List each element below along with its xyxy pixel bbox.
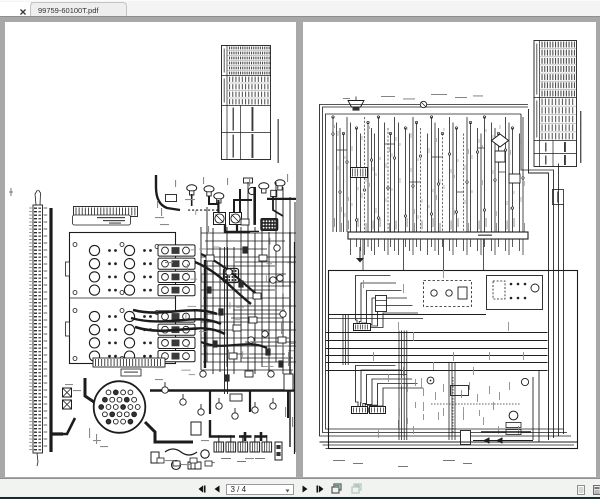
status strip highlight — [0, 496, 600, 498]
cluster tie wires — [191, 187, 296, 232]
parts list table — [221, 45, 270, 159]
relay unit box B — [486, 275, 542, 309]
terminal strip TB1 — [29, 190, 47, 466]
first page button — [198, 485, 206, 493]
page number field — [226, 484, 294, 495]
previous view button — [331, 483, 342, 494]
facing page view icon — [593, 485, 600, 495]
wire labels — [65, 199, 295, 465]
lower section labels — [363, 270, 524, 438]
main vertical bus — [203, 260, 205, 368]
nested routing upper — [353, 275, 418, 330]
round connector J1 — [93, 381, 145, 433]
relay bank — [214, 435, 272, 452]
previous page button — [214, 485, 220, 493]
single page view icon — [577, 485, 585, 495]
connector strip CN1 — [73, 206, 137, 216]
fuse holder — [275, 442, 282, 460]
bottom detail cluster — [399, 377, 531, 434]
lower vertical bundles — [343, 314, 455, 440]
Pub. No. 99759-60100 label — [277, 119, 278, 163]
relay unit dashed box A — [423, 280, 471, 306]
left page (sheet 3) — [5, 22, 297, 478]
auxiliary valves — [151, 382, 276, 470]
last page button — [316, 485, 324, 493]
document tab — [30, 2, 127, 18]
right edge wires — [521, 109, 564, 440]
horn H1 — [348, 96, 364, 110]
relay K1 — [375, 295, 386, 311]
nested routing lower — [351, 365, 423, 413]
next page button — [302, 485, 308, 493]
mesh labels — [181, 210, 299, 383]
valve block body — [65, 232, 175, 363]
wire terminal circles — [331, 132, 523, 220]
next view button (disabled) — [351, 483, 362, 494]
right page (sheet 4) — [303, 22, 596, 478]
ground bus wire — [51, 208, 63, 452]
harness wire labels — [334, 125, 525, 219]
connector bar SD-5561 — [348, 232, 528, 239]
wiring mesh — [201, 182, 296, 452]
cluster labels — [157, 174, 288, 232]
connector box CN3 — [350, 167, 367, 177]
bottom widgets — [157, 458, 265, 466]
mesh components — [199, 219, 285, 382]
outer loop wires — [319, 104, 571, 436]
tab bar — [0, 0, 600, 17]
lower section frame — [328, 270, 577, 448]
vertical harness wires — [331, 115, 522, 231]
crossed valve pair — [62, 388, 71, 409]
relay feed wires — [210, 420, 267, 441]
main valve label — [72, 215, 130, 225]
pump motor unit — [450, 378, 528, 444]
Pub. No. 99759-60100 label — [580, 111, 581, 163]
display unit — [223, 268, 238, 282]
previous tab stub — [0, 2, 27, 18]
solenoid module stack — [158, 244, 195, 361]
bottom bus wires — [319, 442, 577, 449]
mid tie wires — [328, 314, 539, 442]
wire name labels — [334, 218, 525, 232]
diodes — [473, 437, 533, 443]
diamond connector — [491, 134, 520, 183]
right riser wires — [284, 232, 295, 454]
pressure switch cluster — [165, 178, 285, 203]
bus labels — [343, 94, 483, 99]
taskbar edge — [0, 497, 600, 499]
solenoid valves upper bank — [73, 242, 159, 295]
main lower bus wire — [150, 390, 295, 418]
connector grid CN2 — [260, 218, 277, 230]
cluster feed wire — [156, 175, 180, 210]
close button — [20, 9, 26, 15]
page edge mark — [9, 188, 13, 196]
parts list table — [534, 40, 577, 166]
long bus wires — [325, 332, 547, 370]
below frame notes — [333, 460, 472, 467]
lower connector strip — [93, 358, 165, 376]
connector feed wires — [51, 378, 193, 442]
ground — [356, 247, 364, 263]
twin solenoid valves — [213, 212, 241, 224]
top feeder bus — [330, 101, 528, 114]
bus drop wires — [350, 239, 523, 271]
wire harness ropes — [131, 254, 267, 348]
sheet note box — [552, 189, 563, 204]
dashed pilot wire — [188, 209, 218, 211]
bottom toolbar — [0, 478, 600, 496]
solenoid valves lower bank — [73, 308, 159, 361]
